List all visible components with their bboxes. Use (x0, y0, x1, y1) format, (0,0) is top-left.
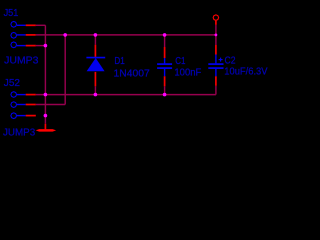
wire C1 top (164, 35, 166, 47)
svg-text:J52: J52 (4, 78, 21, 89)
capacitor C2 top plate (208, 63, 223, 65)
svg-text:JUMP3: JUMP3 (3, 128, 36, 139)
wire J51 pin1 to corner (36, 24, 46, 26)
J52 pin 3 symbol line (17, 115, 26, 117)
capacitor C2 plus sign (219, 58, 223, 62)
power port diamond (213, 15, 219, 21)
J51 pin 1 circle (11, 21, 17, 27)
J51 pin 1 pin line (26, 24, 36, 26)
wire power port (215, 25, 217, 35)
J51 pin 3 pin line (26, 45, 36, 47)
J51 pin 2 circle (11, 32, 17, 38)
wire C1 bottom (164, 86, 166, 94)
svg-text:J51: J51 (4, 8, 19, 19)
wire J51 pin3 stub (36, 45, 46, 47)
svg-text:10uF/6.3V: 10uF/6.3V (224, 67, 267, 78)
diode D1 cathode bar (86, 57, 105, 59)
wire C2 top (215, 35, 217, 45)
diode D1 triangle (87, 58, 105, 71)
wire vertical x=65 (64, 35, 66, 105)
J51 pin 3 symbol line (17, 45, 26, 47)
capacitor C2 bottom plate (208, 67, 223, 69)
svg-text:C1: C1 (175, 56, 185, 67)
junction bottom bus / C1 (163, 93, 167, 97)
J52 pin 3 pin line (26, 115, 36, 117)
junction top bus / C1 (163, 33, 167, 37)
wire bottom bus GND (36, 94, 216, 96)
wire diode top (94, 35, 96, 45)
wire vertical net x=45 (44, 25, 46, 115)
capacitor C1 bottom plate (157, 67, 172, 69)
power port pin (215, 21, 217, 25)
J51 pin 1 symbol line (17, 24, 26, 26)
junction bottom bus / diode anode (94, 93, 98, 97)
capacitor C2 pin 2 (215, 76, 217, 86)
junction top bus / diode cathode (94, 33, 98, 37)
wire top bus VCC (36, 34, 216, 36)
junction J52 pin1 / vertical (44, 93, 48, 97)
svg-text:100nF: 100nF (174, 67, 201, 78)
junction top bus / C2 and power (215, 34, 218, 37)
J52 pin 2 circle (11, 102, 17, 108)
wire C2 bottom riser (215, 86, 217, 95)
capacitor C1 pin 2 (164, 76, 166, 86)
J52 pin 3 circle (11, 113, 17, 119)
svg-text:C2: C2 (225, 56, 236, 67)
capacitor C2 bottom stub (215, 69, 217, 76)
capacitor C1 top plate (157, 63, 172, 65)
junction J52 pin3 / gnd (44, 114, 48, 118)
junction J51 pin3 / vertical (44, 44, 48, 48)
junction top bus / x=65 vertical (63, 33, 67, 37)
J52 pin 2 pin line (26, 104, 36, 106)
J52 pin 2 symbol line (17, 104, 26, 106)
svg-text:JUMP3: JUMP3 (4, 56, 39, 67)
wire diode bottom (94, 86, 96, 94)
diode D1 pin 1 (cathode wire) (94, 45, 96, 57)
J51 pin 2 symbol line (17, 34, 26, 36)
J51 pin 2 pin line (26, 34, 36, 36)
diode D1 pin 2 (anode wire) (94, 72, 96, 86)
J52 pin 1 pin line (26, 94, 36, 96)
capacitor C1 top stub (164, 58, 166, 63)
gnd symbol pin (44, 124, 46, 130)
wire gnd symbol (44, 116, 46, 124)
J51 pin 3 circle (11, 42, 17, 48)
svg-text:1N4007: 1N4007 (114, 69, 151, 80)
svg-text:D1: D1 (114, 56, 125, 67)
capacitor C2 top stub (215, 55, 217, 64)
capacitor C1 bottom stub (164, 69, 166, 76)
wire J52 pin2 stub (36, 104, 65, 106)
gnd power bar (36, 129, 56, 132)
capacitor C2 pin 1 (215, 45, 217, 55)
capacitor C1 pin 1 (164, 47, 166, 58)
J52 pin 1 symbol line (17, 94, 26, 96)
J52 pin 1 circle (11, 92, 17, 98)
circuit schematic: jumper connectors J51/J52 with protection diode D1 and decoupling caps C1/C2 (0, 0, 274, 140)
